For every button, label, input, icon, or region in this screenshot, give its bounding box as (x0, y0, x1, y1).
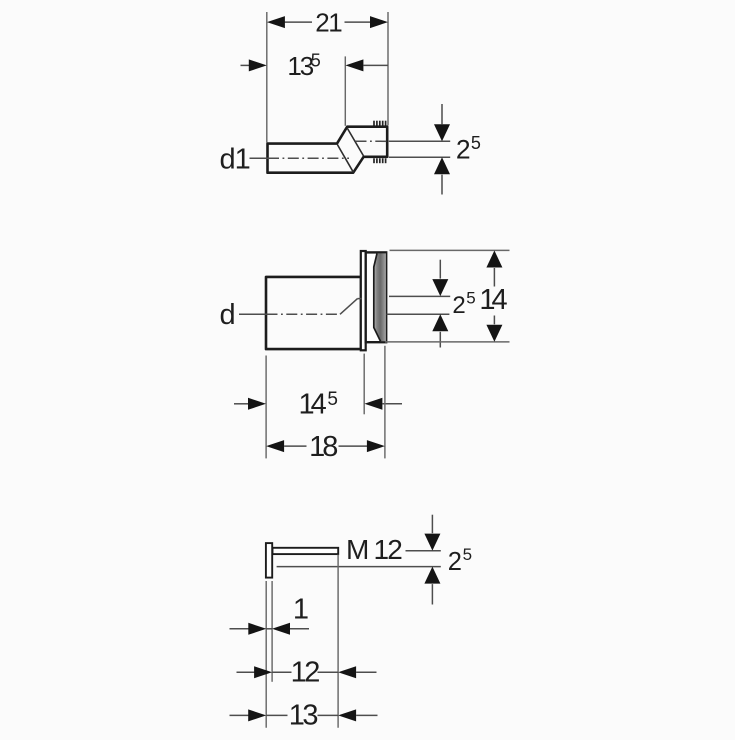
dimension 13.5 (241, 50, 389, 125)
extension lines (bottom view) (266, 555, 338, 728)
offset connector body d1 (top view) (268, 127, 388, 173)
svg-text:12: 12 (291, 656, 320, 688)
svg-text:14: 14 (298, 388, 326, 420)
centerline d1 outlet (offset axis) (356, 140, 388, 142)
centerline d with jog to thread axis (239, 299, 362, 315)
label d (220, 299, 236, 331)
svg-text:5: 5 (327, 389, 338, 410)
elbow seam upper (347, 128, 363, 155)
dimension 14 (flange OD) (385, 250, 510, 342)
dimension 2.5 (rod offset) (277, 515, 472, 605)
union nut (366, 252, 387, 342)
dimension 12 (rod length) (237, 656, 377, 688)
dimension 14.5 (234, 354, 402, 459)
dimension 18 (266, 346, 385, 463)
svg-text:14: 14 (479, 284, 507, 316)
centerline d1 left (250, 157, 350, 159)
svg-text:21: 21 (315, 8, 342, 38)
elbow seam lower (338, 145, 353, 172)
svg-text:d: d (220, 299, 236, 331)
svg-text:5: 5 (463, 545, 472, 564)
svg-text:5: 5 (311, 50, 321, 70)
svg-text:2: 2 (448, 548, 462, 576)
svg-text:13: 13 (289, 699, 318, 731)
dimension 2.5 offset (middle view) (387, 260, 476, 348)
flange plate (361, 251, 366, 350)
dimension 13 (overall length) (230, 699, 378, 731)
label d1 (220, 143, 250, 175)
svg-text:2: 2 (456, 135, 471, 165)
svg-text:18: 18 (309, 431, 337, 463)
straight connector body d (middle view) (266, 277, 361, 349)
svg-text:5: 5 (471, 133, 481, 153)
threaded rod flange plate (bottom view) (266, 543, 272, 578)
dimension 1 (plate thickness) (230, 593, 310, 635)
svg-text:2: 2 (452, 292, 465, 319)
thread ticks bottom (d1 outlet) (374, 158, 386, 163)
dimension 21 (267, 8, 388, 143)
svg-text:5: 5 (466, 289, 475, 308)
label M 12 (346, 534, 402, 565)
dimension 2.5 offset (top view) (389, 104, 481, 195)
threaded rod M12 (273, 548, 339, 554)
thread ticks top (d1 outlet) (374, 121, 386, 126)
svg-text:d1: d1 (220, 143, 250, 175)
svg-text:1: 1 (293, 593, 309, 625)
svg-text:M 12: M 12 (346, 534, 402, 565)
